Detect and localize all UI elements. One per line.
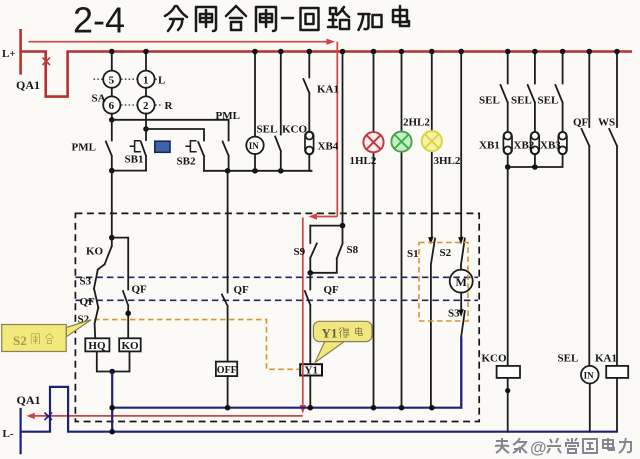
WS label: [598, 117, 615, 129]
QA1 bottom label: [17, 393, 41, 407]
svg-text:S2: S2: [13, 333, 27, 348]
wire coils join: [97, 351, 130, 371]
lamp 3HL2 (yellow): [422, 131, 442, 151]
PML top label: [216, 110, 240, 122]
S2 label (M branch): [440, 247, 452, 259]
KA1 bottom label: [595, 353, 617, 365]
svg-text:XB4: XB4: [318, 141, 339, 153]
node left chain split: [109, 235, 115, 241]
wire Y1 to bus1: [309, 376, 311, 408]
breaker QA1 bottom x mark (navy): [45, 413, 53, 421]
svg-text:SB1: SB1: [125, 154, 144, 166]
svg-text:SA: SA: [92, 93, 106, 105]
2HL2 label: [403, 117, 430, 129]
node dot lamp2 on bus: [399, 49, 405, 55]
svg-text:QF: QF: [234, 284, 250, 296]
wire SA-2 to node: [145, 114, 147, 129]
node S9 chain join: [308, 270, 314, 276]
wire IN column from bus: [254, 52, 256, 137]
title char 回: [301, 8, 319, 30]
coil HQ: [85, 338, 109, 352]
svg-text:5: 5: [109, 74, 115, 86]
svg-text:QA1: QA1: [17, 393, 41, 407]
node SB2 join dot: [225, 168, 231, 174]
node dot WS on bus: [614, 49, 620, 55]
XB1 label: [479, 140, 500, 152]
contact PML (left): [106, 120, 112, 171]
node L- bus HQKO dot: [109, 429, 115, 435]
svg-text:SEL: SEL: [257, 124, 278, 136]
svg-text:PML: PML: [72, 142, 96, 154]
contact S3 (left chain): [94, 270, 98, 289]
callout Y1 energized: [313, 321, 372, 362]
meter IN circle (top): [246, 137, 263, 154]
lamp 2HL2 (green): [391, 132, 411, 152]
svg-text:2-4: 2-4: [73, 0, 125, 41]
wire coils to negative bus (navy): [111, 372, 113, 432]
contact SEL 3: [555, 52, 562, 132]
node coils join: [109, 369, 115, 375]
SA contact 1 circle: [137, 71, 154, 88]
coil KA1: [606, 366, 628, 378]
svg-text:S3: S3: [80, 276, 92, 288]
lamp 1HL2 (red): [363, 132, 383, 152]
title char 闸: [256, 7, 276, 31]
wire SA-6 to node: [111, 114, 113, 120]
title char 路: [328, 7, 349, 29]
wire IN bottom: [254, 154, 256, 171]
KA1 top label: [317, 84, 339, 96]
node R label: [165, 100, 174, 112]
wire QF parallel branch: [112, 238, 128, 339]
wire bracket1 from SA-6 node to PML2: [112, 120, 229, 141]
arrow on red return (left): [26, 413, 35, 419]
XB4 label: [318, 141, 339, 153]
contact S9: [310, 226, 317, 273]
SEL label (top middle): [257, 124, 278, 136]
S1 label: [407, 248, 419, 260]
breaker QA1 (top) label: [16, 78, 40, 92]
title char 电: [393, 6, 409, 26]
SA contact 5 circle: [103, 71, 120, 88]
L- label: [3, 428, 14, 440]
wire XB4 bottom: [309, 155, 311, 171]
contact S1 (driven): [428, 237, 435, 408]
contact S2 (left chain): [95, 308, 99, 339]
svg-text:3HL2: 3HL2: [434, 155, 461, 167]
wire colB bus to SA-1: [145, 52, 147, 71]
node XB join dot 1: [505, 164, 511, 170]
wire colA bus to SA-5: [111, 52, 113, 71]
svg-text:IN: IN: [584, 370, 595, 380]
wire OFF to bus1: [227, 376, 229, 408]
wire left chain drop into box: [111, 171, 113, 238]
pushbutton SB1: [130, 129, 146, 171]
svg-text:L: L: [158, 74, 165, 86]
linkage dashed line S3 level: [75, 276, 478, 278]
title char 分: [165, 6, 187, 31]
contact SEL 2: [528, 52, 535, 132]
title text 2-4: [73, 0, 125, 41]
wire lamp2 column: [401, 52, 403, 408]
link XB2: [531, 132, 540, 155]
node dot S9S8 on bus: [340, 49, 346, 55]
wire XB join line: [508, 154, 563, 167]
node bus1 Y1: [308, 405, 314, 411]
wire S9S8 header: [310, 225, 342, 227]
SA contact 2 circle: [137, 96, 154, 113]
node dot M branch on bus: [458, 49, 464, 55]
wire: red energized path top (thin): [28, 41, 329, 43]
XB2 label: [514, 140, 535, 152]
coil OFF: [216, 362, 237, 377]
pushbutton SB2: [185, 141, 204, 171]
QF parallel label: [132, 284, 148, 296]
svg-text:6: 6: [109, 100, 115, 112]
S3 label (M branch): [448, 308, 460, 320]
SB1 label: [125, 154, 144, 166]
svg-text:L+: L+: [2, 48, 16, 60]
node KCO mid dot: [505, 388, 510, 393]
node dot SEL1 on bus: [505, 49, 511, 55]
link XB4: [305, 132, 314, 155]
arrow on red path (left jog): [309, 213, 338, 219]
SA contact 6 circle: [103, 96, 120, 113]
wire KCO to L-: [507, 378, 509, 432]
svg-text:KO: KO: [86, 246, 104, 258]
svg-text:SEL: SEL: [479, 95, 500, 107]
callout S2 closed: [2, 320, 91, 352]
svg-text:KA1: KA1: [595, 353, 617, 365]
svg-text:OFF: OFF: [217, 365, 237, 376]
svg-text:KA1: KA1: [317, 84, 339, 96]
node dot colB on bus: [143, 49, 149, 55]
node S9S8 top: [340, 223, 346, 229]
node KCO join dot: [278, 168, 284, 174]
contact PML (top right): [223, 142, 229, 171]
S3 label (left): [80, 276, 92, 288]
orange box around S1 S2 M S3: [419, 243, 468, 322]
QF middle label: [234, 284, 250, 296]
svg-text:SEL: SEL: [558, 353, 579, 365]
svg-text:WS: WS: [598, 117, 615, 129]
node bus1 HQKO: [109, 405, 115, 411]
svg-text:S3: S3: [448, 308, 460, 320]
wire: red energized path down to Y1: [302, 218, 304, 407]
contact WS: [609, 52, 617, 366]
svg-text:XB3: XB3: [540, 140, 561, 152]
SEL3 label: [538, 95, 559, 107]
linkage dashed line QF level: [75, 299, 478, 301]
svg-text:XB1: XB1: [479, 140, 500, 152]
1HL2 label: [350, 155, 377, 167]
L- bus with QA1 jog (navy): [21, 387, 617, 432]
L- terminal stub (navy): [20, 408, 22, 454]
XB3 label: [540, 140, 561, 152]
arrow on red path (right): [327, 39, 336, 45]
wire: red path across Y1 coil: [302, 363, 304, 377]
S2 left label: [78, 314, 90, 326]
KCO label (top middle): [282, 124, 308, 136]
svg-text:S1: S1: [407, 248, 419, 260]
wire S9S8 feed column: [342, 52, 344, 226]
node dot lamp1 on bus: [371, 49, 377, 55]
QF left label: [80, 296, 96, 308]
svg-text:XB2: XB2: [514, 140, 535, 152]
motor M: [450, 270, 473, 293]
title char 合: [226, 6, 246, 30]
svg-text:QF: QF: [80, 296, 96, 308]
svg-text:HQ: HQ: [88, 340, 106, 352]
contact S3 (driven, M branch): [458, 293, 464, 408]
SEL2 label: [511, 95, 532, 107]
contact QF (S9 chain): [305, 273, 311, 364]
QF S9 chain label: [324, 284, 340, 296]
wire IN bottom to L-: [589, 384, 591, 432]
node bus1 lamp1: [371, 405, 377, 411]
contact S2 (driven, M branch): [458, 237, 465, 270]
svg-text:KCO: KCO: [482, 353, 508, 365]
wire OFF chain drop: [222, 171, 228, 362]
node QF branch bottom: [125, 311, 131, 317]
SB2 label: [177, 156, 196, 168]
title char 加: [359, 14, 382, 30]
node dot lamp3 on bus: [429, 49, 435, 55]
svg-text:SB2: SB2: [177, 156, 196, 168]
wire SA 1-2: [145, 88, 147, 97]
svg-text:Y1: Y1: [305, 365, 318, 377]
indicator blue block: [155, 141, 170, 152]
PML left label: [72, 142, 96, 154]
contact KA1 (top): [303, 52, 309, 132]
svg-text:Y1: Y1: [322, 326, 338, 341]
svg-text:QA1: QA1: [16, 78, 40, 92]
svg-text:QF: QF: [573, 117, 589, 129]
breaker QA1 (top) x mark: [43, 58, 51, 66]
L+ bus wire with QA1 jog: [21, 52, 632, 97]
svg-text:QF: QF: [132, 284, 148, 296]
SA dotted linkage row 2: [121, 104, 163, 106]
node bus1 OFF: [225, 405, 231, 411]
callout S2 text: [13, 333, 54, 348]
S8 label: [347, 244, 359, 256]
svg-text:2: 2: [143, 100, 149, 112]
svg-text:S9: S9: [294, 246, 306, 258]
svg-text:SEL: SEL: [511, 95, 532, 107]
node below SA-2: [143, 126, 149, 132]
wire KA1 to L-: [616, 378, 618, 432]
node dot IN col on bus: [252, 49, 258, 55]
node dot KA1 col on bus: [307, 49, 313, 55]
contact QF (right): [582, 52, 590, 367]
wire KCO coil column: [507, 167, 509, 366]
title char 闸: [196, 7, 216, 31]
svg-text:1: 1: [143, 74, 149, 86]
arrow on red path (down into Y1 return): [300, 405, 306, 414]
svg-text:KO: KO: [122, 340, 140, 352]
node dot colA on bus: [109, 49, 115, 55]
node bus1 S1: [429, 405, 435, 411]
wire join SB2..XB4 bottoms: [204, 170, 311, 172]
node dot SEL2 on bus: [532, 49, 538, 55]
svg-text:R: R: [165, 100, 174, 112]
3HL2 label: [434, 155, 461, 167]
node dot QF right on bus: [587, 49, 593, 55]
dashed mechanism box: [75, 213, 479, 421]
node dot SEL3 on bus: [560, 49, 566, 55]
node L label: [158, 74, 165, 86]
contact KO: [98, 238, 112, 270]
node below SA-6: [109, 117, 115, 123]
svg-text:IN: IN: [249, 141, 260, 151]
svg-text:KCO: KCO: [282, 124, 308, 136]
node junction PML1/SB1: [109, 168, 115, 174]
meter IN circle (bottom): [581, 366, 599, 384]
coil KO: [119, 338, 141, 352]
contact S8: [310, 226, 342, 273]
KCO bottom label: [482, 353, 508, 365]
wire: red return line bottom: [29, 415, 303, 417]
S9 label: [294, 246, 306, 258]
SEL bottom label: [558, 353, 579, 365]
node IN join dot: [252, 168, 258, 174]
QF right label: [573, 117, 589, 129]
KO label: [86, 246, 104, 258]
contact KCO: [275, 52, 281, 171]
link XB3: [558, 132, 567, 155]
svg-text:QF: QF: [324, 284, 340, 296]
node bus1 lamp2: [399, 405, 405, 411]
contact QF (left chain): [94, 289, 98, 308]
node dot KCO col on bus: [278, 49, 284, 55]
svg-text:PML: PML: [216, 110, 240, 122]
link XB1: [503, 132, 512, 155]
node XB join dot 2: [532, 164, 538, 170]
svg-text:@: @: [530, 438, 547, 457]
SEL1 label: [479, 95, 500, 107]
L+ supply riser: [19, 29, 22, 75]
SA label: [92, 93, 106, 105]
callout Y1 text: [322, 326, 363, 341]
svg-text:S2: S2: [440, 247, 452, 259]
wire bracket2 from SA-2 node to SB2: [146, 129, 204, 141]
contact SEL 1: [501, 52, 508, 132]
SA dotted linkage row 1: [94, 78, 158, 80]
svg-text:L-: L-: [3, 428, 14, 440]
wire SA 5-6: [111, 88, 113, 97]
svg-text:S8: S8: [347, 244, 359, 256]
negative bus inside box (navy): [112, 337, 462, 408]
watermark toutiao: [495, 438, 527, 453]
wire M branch column from bus: [460, 52, 462, 239]
svg-text:1HL2: 1HL2: [350, 155, 377, 167]
wire lamp3 column (top): [431, 52, 433, 239]
node L+ label: [2, 48, 16, 60]
orange highlight path S2 to Y1: [94, 320, 299, 370]
wire lamp1 column: [373, 52, 375, 408]
coil Y1: [300, 364, 322, 377]
coil KCO: [497, 366, 520, 378]
svg-text:SEL: SEL: [538, 95, 559, 107]
title hyphen: [282, 17, 293, 20]
wire: red energized path down right: [336, 42, 338, 217]
wire join PML1-SB1 bottoms: [112, 170, 146, 172]
svg-text:2HL2: 2HL2: [403, 117, 430, 129]
